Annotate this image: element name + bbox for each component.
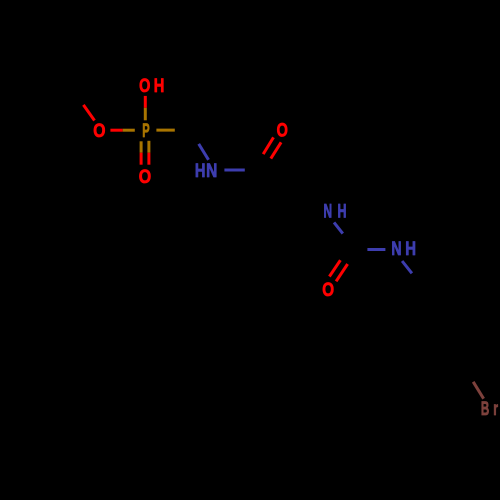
wire C-Br bond Br half <box>473 382 483 399</box>
svg-text:P: P <box>142 121 150 142</box>
wire P=O double bond line2 P half <box>147 141 150 153</box>
svg-text:N: N <box>206 161 217 182</box>
wire ethyl O-CH2 bond (O half) <box>83 105 94 121</box>
svg-text:H: H <box>338 201 347 222</box>
svg-text:N: N <box>324 201 333 222</box>
wire P=O double bond line2 O half <box>147 153 150 165</box>
svg-text:H: H <box>154 76 165 97</box>
wire NH-phenyl bond N half <box>402 261 412 273</box>
svg-text:H: H <box>405 239 416 260</box>
wire P=O double bond line1 P half <box>140 141 143 152</box>
svg-text:N: N <box>391 239 401 260</box>
svg-text:O: O <box>139 167 151 188</box>
wire NH-C(=O) bond N half <box>224 169 244 172</box>
wire CH2-NH bond N half <box>199 144 209 160</box>
svg-text:r: r <box>493 399 498 420</box>
svg-text:H: H <box>195 161 206 182</box>
svg-text:B: B <box>481 399 489 420</box>
svg-text:O: O <box>322 280 334 301</box>
svg-text:O: O <box>139 76 150 97</box>
wire amide C=O double bond line1 O half <box>263 137 273 154</box>
wire P=O double bond line1 O half <box>140 153 143 165</box>
wire O-P bond P half <box>123 129 135 132</box>
wire urea C=O double bond line1 O half <box>329 260 340 276</box>
svg-text:O: O <box>93 121 105 142</box>
svg-text:O: O <box>277 121 288 142</box>
wire amide C=O double bond line2 O half <box>271 142 281 158</box>
wire urea C-NH bond N half <box>367 248 385 251</box>
wire P-OH bond O half <box>144 96 147 108</box>
wire O-P bond O half <box>110 129 122 132</box>
wire urea C=O double bond line2 O half <box>336 264 348 281</box>
wire urea NH-C bond N half <box>334 222 343 233</box>
wire P-OH bond P half <box>144 108 147 121</box>
wire P-CH2 bond P half <box>156 129 174 132</box>
